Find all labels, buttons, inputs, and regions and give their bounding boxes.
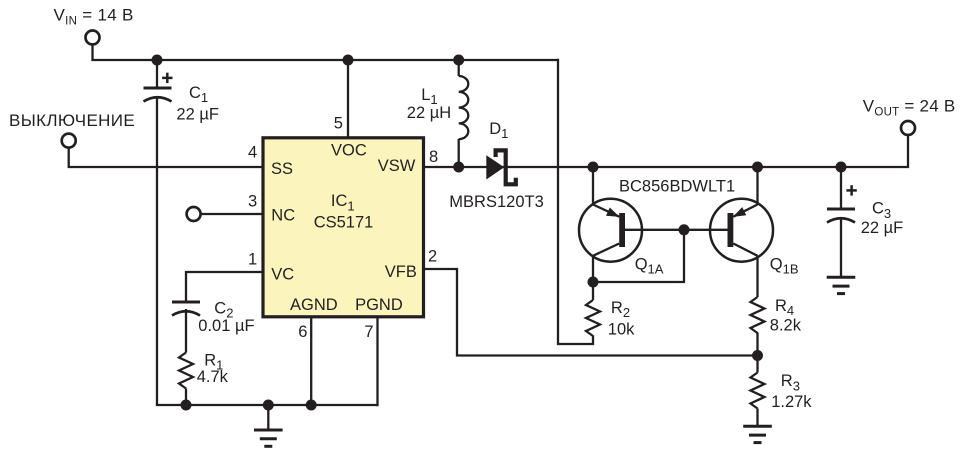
wire Q1B collector stub to R4: [756, 256, 758, 298]
wire rail right drop down to R2 bottom: [558, 59, 593, 344]
wire R3 top stub: [756, 356, 758, 373]
junction at L1 bottom / VSW: [453, 162, 464, 173]
junction at Q1A emitter rail: [588, 162, 599, 173]
svg-text:VSW: VSW: [378, 157, 416, 175]
wire C1 top stub: [156, 60, 158, 87]
svg-text:10k: 10k: [608, 321, 635, 339]
resistor R2: [586, 300, 600, 336]
wire Q1A collector stub: [592, 256, 594, 283]
wire VSW main rail to V_OUT: [423, 135, 908, 167]
junction R1 bottom: [181, 400, 192, 411]
svg-text:22 µF: 22 µF: [861, 219, 904, 237]
junction at base node: [679, 224, 690, 235]
wire base junction down to collector node: [593, 230, 684, 282]
wire R3 bottom stub: [756, 409, 758, 426]
svg-text:7: 7: [364, 323, 373, 341]
junction at Q1A collector node: [588, 277, 599, 288]
resistor R3: [751, 373, 765, 409]
wire Q1A emitter stub: [592, 167, 594, 205]
wire PGND pin 7 up: [376, 317, 378, 406]
ground at C3: [827, 277, 856, 293]
diode D1: [486, 150, 516, 184]
wire NC terminal to NC pin 3: [201, 213, 263, 215]
svg-text:8.2k: 8.2k: [770, 317, 802, 335]
junction at C3 rail: [836, 162, 847, 173]
resistor R4: [751, 297, 765, 333]
wire R2 top stub: [592, 282, 594, 300]
svg-text:4: 4: [248, 143, 257, 161]
ground at bottom rail: [254, 430, 283, 446]
svg-text:1: 1: [248, 250, 257, 268]
wire C1 bottom down to ground rail: [156, 98, 158, 406]
svg-text:1.27k: 1.27k: [771, 393, 812, 411]
inductor L1: [459, 76, 469, 139]
svg-text:MBRS120T3: MBRS120T3: [449, 193, 543, 211]
svg-text:22 µF: 22 µF: [176, 106, 219, 124]
svg-text:8: 8: [429, 148, 438, 166]
resistor R1: [179, 353, 193, 389]
wire ground stem at rail: [267, 405, 269, 429]
terminal NC: [187, 207, 201, 221]
terminal V_OUT: [901, 121, 915, 135]
svg-text:SS: SS: [271, 160, 293, 178]
svg-text:3: 3: [248, 192, 257, 210]
junction at Q1B emitter rail: [752, 162, 763, 173]
terminal V_IN: [86, 31, 100, 45]
svg-text:VOC: VOC: [331, 142, 367, 160]
transistor Q1A: [579, 199, 642, 262]
wire C2 to R1: [185, 309, 187, 353]
svg-text:AGND: AGND: [290, 296, 338, 314]
junction on rail at L1: [453, 55, 464, 66]
capacitor C1: [144, 73, 173, 102]
junction R4 R3 feedback: [752, 350, 763, 361]
svg-text:VFB: VFB: [385, 263, 417, 281]
IC U1 CS5171 body: [263, 138, 424, 317]
wire L1 bottom stub: [458, 139, 460, 167]
junction AGND rail: [306, 400, 317, 411]
svg-text:2: 2: [428, 248, 437, 266]
wire VC pin 1 to C2: [186, 272, 262, 302]
svg-text:VC: VC: [271, 266, 294, 284]
junction on rail at VOC: [343, 55, 354, 66]
wire VFB pin 2 feedback line: [423, 269, 758, 356]
terminal shutdown: [62, 134, 76, 148]
svg-text:22 µH: 22 µH: [407, 104, 451, 122]
wire C3 top stub: [840, 167, 842, 209]
junction on rail at C1: [152, 55, 163, 66]
wire Q1A base to Q1B base: [625, 229, 728, 231]
svg-text:4.7k: 4.7k: [197, 368, 229, 386]
ground at R3: [743, 426, 772, 442]
wire R1 bottom stub: [185, 389, 187, 406]
svg-text:0.01 µF: 0.01 µF: [198, 317, 254, 335]
wire C3 bottom stub: [840, 220, 842, 277]
wire R4 bottom stub: [756, 333, 758, 356]
svg-text:NC: NC: [271, 207, 295, 225]
svg-text:ВЫКЛЮЧЕНИЕ: ВЫКЛЮЧЕНИЕ: [9, 111, 135, 130]
svg-text:PGND: PGND: [355, 296, 403, 314]
wire L1 top stub: [458, 60, 460, 76]
svg-text:6: 6: [298, 323, 307, 341]
svg-text:5: 5: [334, 115, 343, 133]
svg-text:BC856BDWLT1: BC856BDWLT1: [619, 177, 735, 195]
svg-text:CS5171: CS5171: [314, 214, 374, 232]
wire VOC pin 5: [347, 60, 349, 137]
wire bottom ground rail: [157, 404, 378, 405]
capacitor C2: [172, 302, 200, 316]
capacitor C3: [827, 185, 857, 222]
transistor Q1B: [710, 199, 773, 262]
wire Q1B emitter stub: [756, 167, 758, 205]
wire AGND pin 6 down: [310, 317, 312, 405]
wire V_IN terminal to top rail: [93, 44, 559, 60]
junction ground rail: [263, 400, 274, 411]
wire shutdown to SS pin 4: [69, 148, 262, 168]
